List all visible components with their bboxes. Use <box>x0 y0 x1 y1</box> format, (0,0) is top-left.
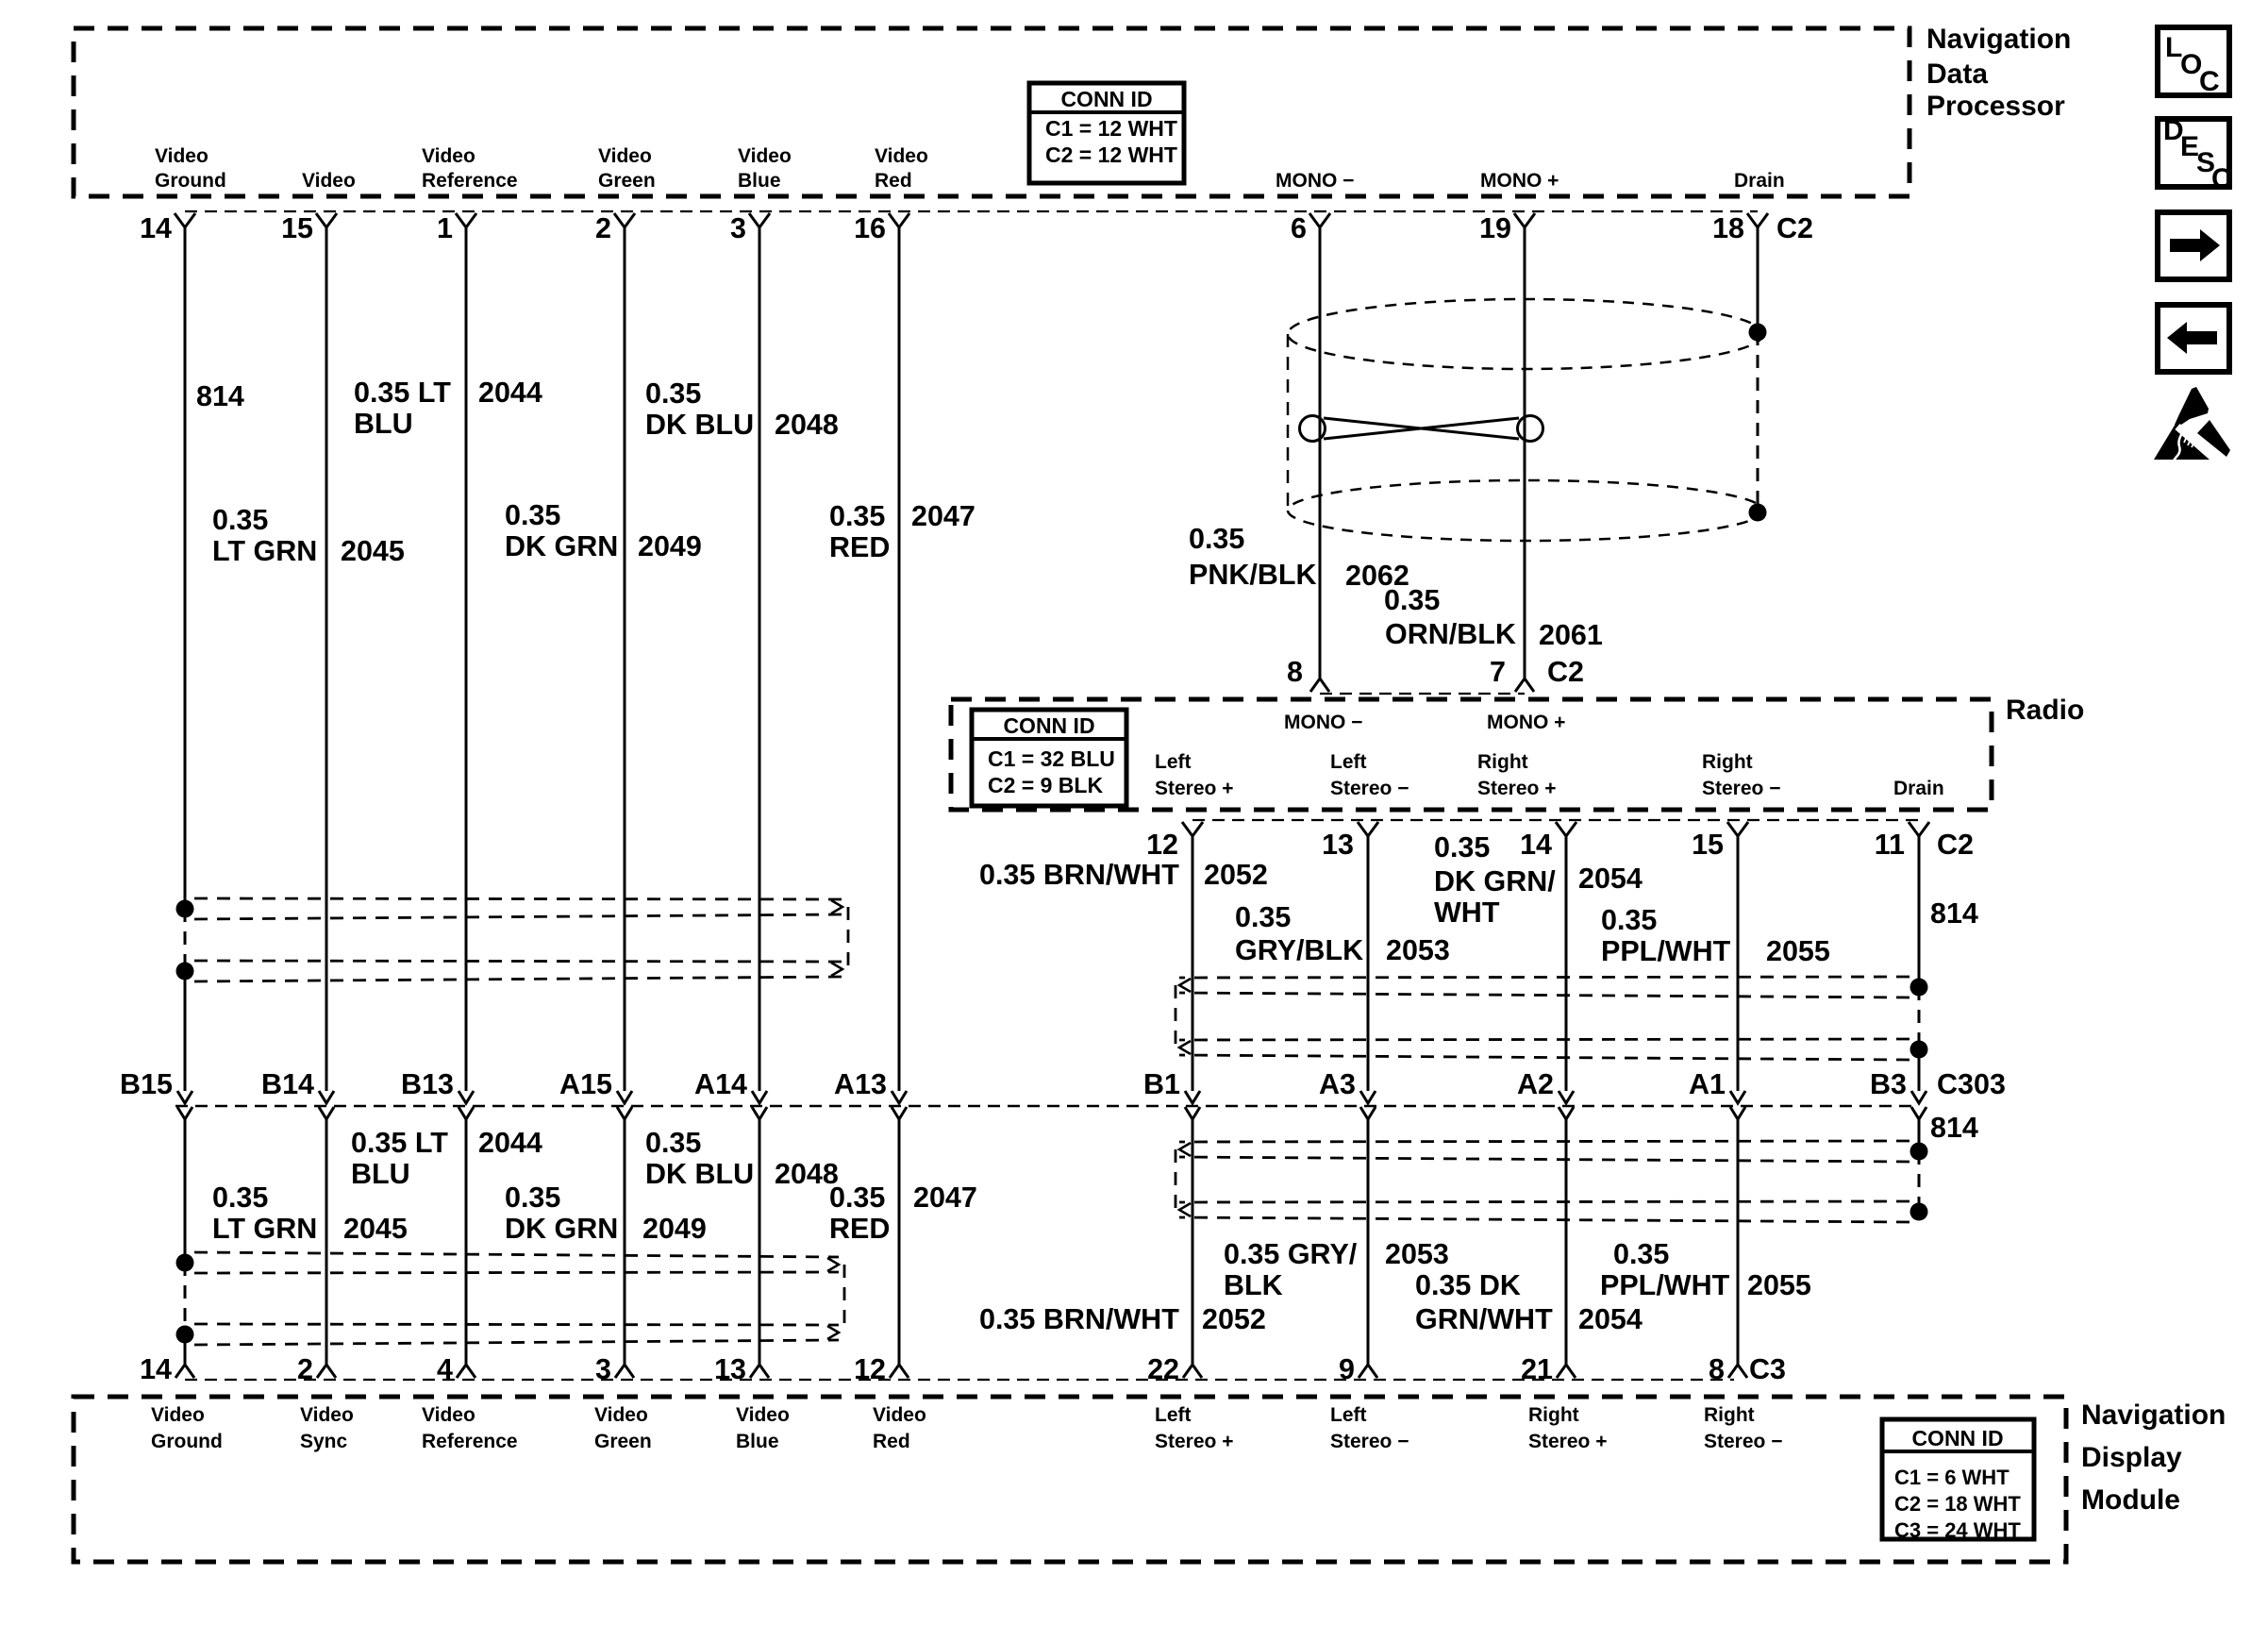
svg-text:Left: Left <box>1155 751 1192 773</box>
svg-text:13: 13 <box>714 1353 746 1385</box>
svg-text:A13: A13 <box>834 1068 887 1100</box>
svg-text:814: 814 <box>1930 1112 1978 1144</box>
svg-text:Stereo +: Stereo + <box>1528 1431 1607 1452</box>
svg-text:Blue: Blue <box>738 170 781 192</box>
svg-text:C: C <box>2211 163 2232 194</box>
svg-text:Video: Video <box>598 145 652 167</box>
svg-text:Sync: Sync <box>300 1431 348 1452</box>
svg-text:C1 = 32 BLU: C1 = 32 BLU <box>988 746 1115 771</box>
svg-text:22: 22 <box>1147 1353 1179 1385</box>
svg-text:Drain: Drain <box>1893 778 1944 799</box>
svg-text:C2: C2 <box>1776 212 1813 244</box>
svg-text:Stereo +: Stereo + <box>1477 778 1556 799</box>
svg-text:Stereo +: Stereo + <box>1155 778 1233 799</box>
svg-text:13: 13 <box>1322 829 1354 861</box>
svg-text:Right: Right <box>1528 1404 1579 1426</box>
svg-text:0.35: 0.35 <box>1384 584 1440 616</box>
svg-text:7: 7 <box>1490 656 1506 688</box>
svg-text:WHT: WHT <box>1434 897 1500 929</box>
svg-text:A3: A3 <box>1319 1068 1356 1100</box>
svg-text:2: 2 <box>297 1353 313 1385</box>
svg-text:2047: 2047 <box>911 500 976 532</box>
svg-text:814: 814 <box>1930 897 1978 930</box>
svg-text:2045: 2045 <box>341 535 405 567</box>
svg-text:2044: 2044 <box>478 1127 542 1159</box>
svg-text:2049: 2049 <box>642 1213 707 1245</box>
svg-text:Left: Left <box>1330 1404 1367 1426</box>
svg-text:BLK: BLK <box>1224 1269 1283 1301</box>
svg-text:Video: Video <box>302 170 356 192</box>
svg-text:Video: Video <box>594 1404 648 1426</box>
svg-text:0.35: 0.35 <box>645 1127 701 1159</box>
svg-text:B3: B3 <box>1870 1068 1907 1100</box>
svg-text:Navigation: Navigation <box>1926 24 2071 55</box>
svg-text:0.35 LT: 0.35 LT <box>354 377 451 409</box>
svg-text:2053: 2053 <box>1385 1238 1449 1270</box>
svg-text:Right: Right <box>1477 751 1528 773</box>
svg-text:B1: B1 <box>1143 1068 1180 1100</box>
svg-text:LT GRN: LT GRN <box>212 1213 317 1245</box>
svg-text:C2: C2 <box>1937 829 1974 861</box>
svg-text:Stereo −: Stereo − <box>1330 778 1409 799</box>
svg-text:0.35: 0.35 <box>829 1182 885 1214</box>
svg-text:6: 6 <box>1291 212 1307 244</box>
svg-text:C2 = 9 BLK: C2 = 9 BLK <box>988 773 1103 797</box>
svg-text:2047: 2047 <box>913 1182 977 1214</box>
svg-text:12: 12 <box>1146 829 1178 861</box>
svg-text:0.35 GRY/: 0.35 GRY/ <box>1224 1238 1358 1270</box>
svg-text:14: 14 <box>1520 829 1552 861</box>
svg-text:2054: 2054 <box>1578 863 1643 895</box>
svg-text:0.35: 0.35 <box>212 504 268 536</box>
svg-text:8: 8 <box>1287 656 1303 688</box>
svg-text:CONN ID: CONN ID <box>1060 87 1152 111</box>
svg-text:C1 = 6 WHT: C1 = 6 WHT <box>1894 1466 2010 1489</box>
svg-text:A15: A15 <box>559 1068 612 1100</box>
svg-text:Right: Right <box>1702 751 1753 773</box>
svg-text:Red: Red <box>873 1431 910 1452</box>
svg-text:A14: A14 <box>694 1068 747 1100</box>
svg-text:Right: Right <box>1704 1404 1755 1426</box>
svg-text:15: 15 <box>1692 829 1724 861</box>
svg-text:Video: Video <box>736 1404 790 1426</box>
svg-text:C2 = 18 WHT: C2 = 18 WHT <box>1894 1492 2021 1516</box>
svg-text:Module: Module <box>2081 1484 2180 1516</box>
svg-text:Ground: Ground <box>155 170 226 192</box>
svg-text:18: 18 <box>1712 212 1744 244</box>
svg-text:Navigation: Navigation <box>2081 1400 2226 1431</box>
svg-text:0.35: 0.35 <box>1235 901 1291 933</box>
svg-text:CONN ID: CONN ID <box>1911 1426 2003 1450</box>
svg-text:Video: Video <box>422 145 475 167</box>
svg-text:DK BLU: DK BLU <box>645 1158 754 1190</box>
svg-text:2054: 2054 <box>1578 1303 1643 1335</box>
svg-text:1: 1 <box>437 212 453 244</box>
svg-text:C1 = 12 WHT: C1 = 12 WHT <box>1045 116 1177 141</box>
svg-text:11: 11 <box>1875 829 1905 861</box>
svg-text:DK BLU: DK BLU <box>645 409 754 441</box>
svg-text:C303: C303 <box>1937 1068 2006 1100</box>
svg-text:B13: B13 <box>401 1068 454 1100</box>
svg-text:Radio: Radio <box>2006 695 2084 726</box>
svg-text:MONO +: MONO + <box>1480 170 1559 192</box>
svg-text:3: 3 <box>730 212 746 244</box>
svg-text:DK GRN/: DK GRN/ <box>1434 865 1556 897</box>
svg-text:2053: 2053 <box>1386 934 1450 966</box>
svg-text:2048: 2048 <box>775 409 839 441</box>
svg-text:14: 14 <box>140 1353 172 1385</box>
svg-text:Video: Video <box>155 145 208 167</box>
svg-text:0.35 LT: 0.35 LT <box>351 1127 448 1159</box>
svg-text:21: 21 <box>1521 1353 1553 1385</box>
svg-text:Ground: Ground <box>151 1431 223 1452</box>
svg-text:MONO +: MONO + <box>1487 712 1565 733</box>
svg-text:3: 3 <box>595 1353 611 1385</box>
svg-text:DK GRN: DK GRN <box>505 1213 618 1245</box>
svg-text:2052: 2052 <box>1204 859 1268 891</box>
svg-text:Reference: Reference <box>422 1431 518 1452</box>
svg-text:4: 4 <box>437 1353 453 1385</box>
svg-text:RED: RED <box>829 1213 890 1245</box>
svg-text:B14: B14 <box>261 1068 314 1100</box>
svg-text:12: 12 <box>854 1353 886 1385</box>
svg-text:0.35 BRN/WHT: 0.35 BRN/WHT <box>979 1303 1179 1335</box>
svg-text:Video: Video <box>422 1404 475 1426</box>
svg-text:PPL/WHT: PPL/WHT <box>1601 935 1731 967</box>
svg-text:Video: Video <box>875 145 928 167</box>
svg-text:0.35: 0.35 <box>1601 904 1657 936</box>
svg-text:2045: 2045 <box>343 1213 408 1245</box>
svg-text:GRN/WHT: GRN/WHT <box>1415 1303 1553 1335</box>
svg-text:0.35: 0.35 <box>1189 523 1244 555</box>
svg-text:2: 2 <box>595 212 611 244</box>
svg-text:BLU: BLU <box>354 408 413 440</box>
svg-text:Video: Video <box>300 1404 354 1426</box>
svg-text:14: 14 <box>140 212 172 244</box>
svg-text:9: 9 <box>1339 1353 1355 1385</box>
svg-text:DK GRN: DK GRN <box>505 530 618 562</box>
svg-text:Stereo −: Stereo − <box>1330 1431 1409 1452</box>
svg-text:2055: 2055 <box>1766 935 1830 967</box>
svg-text:Left: Left <box>1155 1404 1192 1426</box>
svg-text:C3 = 24 WHT: C3 = 24 WHT <box>1894 1518 2021 1542</box>
svg-text:C2 = 12 WHT: C2 = 12 WHT <box>1045 142 1177 167</box>
svg-text:Stereo +: Stereo + <box>1155 1431 1233 1452</box>
svg-text:BLU: BLU <box>351 1158 410 1190</box>
svg-text:A1: A1 <box>1689 1068 1726 1100</box>
svg-text:Processor: Processor <box>1926 91 2065 122</box>
svg-text:C: C <box>2199 66 2220 97</box>
svg-text:0.35: 0.35 <box>212 1182 268 1214</box>
svg-text:Data: Data <box>1926 59 1988 90</box>
svg-text:PNK/BLK: PNK/BLK <box>1189 559 1317 591</box>
svg-text:0.35: 0.35 <box>505 499 560 531</box>
svg-text:A2: A2 <box>1517 1068 1554 1100</box>
svg-text:Red: Red <box>875 170 912 192</box>
svg-text:0.35: 0.35 <box>829 500 885 532</box>
svg-text:0.35: 0.35 <box>645 377 701 410</box>
svg-text:2055: 2055 <box>1747 1269 1811 1301</box>
svg-text:C3: C3 <box>1749 1353 1786 1385</box>
svg-text:B15: B15 <box>120 1068 173 1100</box>
svg-text:Video: Video <box>873 1404 926 1426</box>
svg-text:Green: Green <box>594 1431 652 1452</box>
svg-text:Blue: Blue <box>736 1431 779 1452</box>
svg-text:Reference: Reference <box>422 170 518 192</box>
svg-text:2049: 2049 <box>638 530 702 562</box>
svg-text:Display: Display <box>2081 1442 2182 1473</box>
svg-text:Video: Video <box>738 145 792 167</box>
svg-text:2044: 2044 <box>478 377 542 409</box>
svg-text:Stereo −: Stereo − <box>1702 778 1780 799</box>
svg-text:0.35: 0.35 <box>1434 831 1490 863</box>
svg-text:Video: Video <box>151 1404 205 1426</box>
svg-text:16: 16 <box>854 212 886 244</box>
svg-text:MONO −: MONO − <box>1284 712 1362 733</box>
svg-text:814: 814 <box>196 380 244 412</box>
svg-text:2061: 2061 <box>1539 619 1603 651</box>
svg-text:0.35 BRN/WHT: 0.35 BRN/WHT <box>979 859 1179 891</box>
svg-text:C2: C2 <box>1547 656 1584 688</box>
svg-text:GRY/BLK: GRY/BLK <box>1235 934 1363 966</box>
svg-text:RED: RED <box>829 531 890 563</box>
svg-text:0.35: 0.35 <box>505 1182 560 1214</box>
svg-text:15: 15 <box>281 212 313 244</box>
svg-text:MONO −: MONO − <box>1276 170 1354 192</box>
svg-text:19: 19 <box>1479 212 1511 244</box>
svg-text:PPL/WHT: PPL/WHT <box>1600 1269 1730 1301</box>
svg-text:CONN ID: CONN ID <box>1003 713 1094 738</box>
svg-text:Left: Left <box>1330 751 1367 773</box>
svg-text:0.35 DK: 0.35 DK <box>1415 1269 1521 1301</box>
svg-text:ORN/BLK: ORN/BLK <box>1385 618 1516 650</box>
svg-text:0.35: 0.35 <box>1613 1238 1669 1270</box>
svg-text:Stereo −: Stereo − <box>1704 1431 1782 1452</box>
svg-text:Green: Green <box>598 170 656 192</box>
svg-text:LT GRN: LT GRN <box>212 535 317 567</box>
svg-text:2052: 2052 <box>1202 1303 1266 1335</box>
svg-text:8: 8 <box>1709 1353 1725 1385</box>
svg-text:Drain: Drain <box>1734 170 1785 192</box>
